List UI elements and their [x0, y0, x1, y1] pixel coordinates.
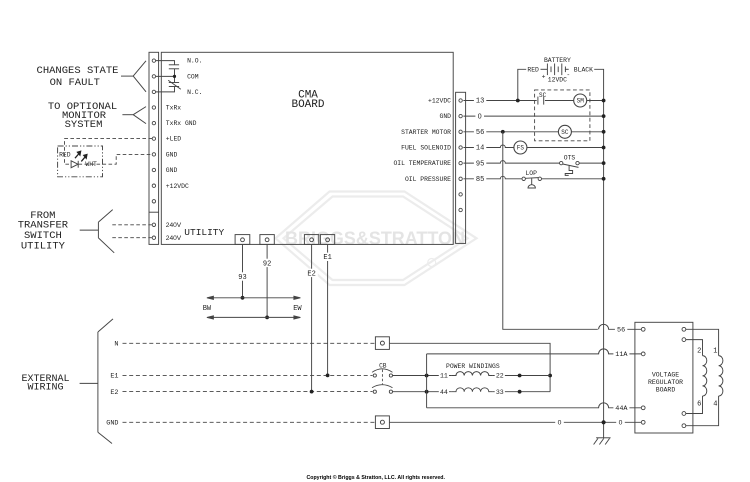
wire coil2 bottom to reg	[686, 396, 703, 414]
switch LOP	[522, 177, 542, 180]
node N at 22	[548, 374, 552, 378]
svg-text:FUEL SOLENOID: FUEL SOLENOID	[401, 145, 451, 152]
node 44 dot	[425, 390, 429, 394]
svg-text:0: 0	[619, 420, 623, 427]
label 56 right	[615, 325, 627, 333]
label E2 drop	[305, 269, 317, 277]
wire 240V dashed a	[112, 224, 152, 226]
svg-text:TxRx GND: TxRx GND	[166, 120, 197, 127]
svg-text:BLACK: BLACK	[574, 67, 593, 74]
node E2 tap	[310, 390, 314, 394]
wire FS to bus	[527, 147, 604, 149]
svg-text:SC: SC	[561, 129, 569, 136]
node bus row0 bottom	[602, 420, 606, 424]
svg-text:FS: FS	[517, 145, 525, 152]
label 11A	[613, 350, 629, 358]
wire 11A with hop	[427, 349, 642, 354]
svg-text:N.O.: N.O.	[187, 58, 202, 65]
wire 56 down-run	[503, 132, 598, 329]
svg-text:44A: 44A	[615, 405, 628, 413]
svg-text:OTS: OTS	[564, 154, 576, 161]
wire coil1 bottom to reg	[686, 396, 719, 426]
svg-text:UTILITY: UTILITY	[184, 227, 224, 238]
coil FS fuel solenoid	[514, 141, 527, 154]
wire row 56	[463, 131, 558, 133]
svg-text:SYSTEM: SYSTEM	[65, 119, 103, 131]
terminal block 92	[260, 235, 274, 245]
svg-text:UTILITY: UTILITY	[21, 240, 66, 252]
wire E2 dashed	[123, 391, 373, 393]
node bus row85	[602, 177, 606, 181]
regulator left terminals	[641, 327, 645, 424]
label 92	[261, 259, 273, 267]
right bus wire	[603, 101, 605, 438]
svg-text:93: 93	[238, 274, 246, 282]
winding 44-33	[452, 388, 493, 392]
node 93 on BW	[241, 296, 245, 300]
svg-text:BATTERY: BATTERY	[544, 57, 571, 64]
label 33	[495, 388, 505, 396]
svg-text:33: 33	[496, 389, 504, 396]
wire LED to GND dashed	[79, 154, 153, 164]
svg-text:STARTER MOTOR: STARTER MOTOR	[401, 129, 451, 136]
svg-text:56: 56	[476, 129, 484, 137]
svg-text:SM: SM	[577, 98, 585, 105]
svg-text:BW: BW	[203, 305, 212, 313]
svg-text:44: 44	[440, 389, 448, 396]
wire CB to 11	[393, 375, 452, 377]
CMA board outline U1	[161, 52, 453, 244]
svg-text:N.C.: N.C.	[187, 89, 202, 96]
svg-text:4: 4	[713, 400, 717, 408]
relay contact symbol (N.O./COM/N.C.)	[156, 61, 181, 92]
svg-text:CHANGES STATE: CHANGES STATE	[37, 65, 119, 77]
wire reg to coil2 top	[686, 340, 703, 356]
label E1 drop	[321, 253, 333, 261]
svg-text:OIL TEMPERATURE: OIL TEMPERATURE	[393, 160, 451, 167]
wire battery red lead	[518, 69, 526, 100]
svg-text:12VDC: 12VDC	[548, 77, 567, 84]
node bus row56	[602, 130, 606, 134]
node 33 dot	[518, 390, 522, 394]
wire +LED dashed	[65, 139, 153, 165]
relay COM junction	[173, 75, 176, 78]
wire E1 drop	[327, 244, 329, 375]
label 22	[495, 372, 505, 380]
svg-text:E2: E2	[110, 389, 118, 397]
node bus row0	[602, 114, 606, 118]
svg-text:E1: E1	[323, 254, 331, 262]
wire 240V dashed b	[112, 237, 152, 239]
brace transfer switch	[80, 210, 115, 253]
BW arrow line	[207, 296, 301, 299]
terminal block E1	[320, 235, 334, 245]
svg-text:+12VDC: +12VDC	[166, 183, 189, 190]
svg-text:0: 0	[558, 420, 562, 427]
svg-text:85: 85	[476, 176, 484, 184]
node bus row14	[602, 146, 606, 150]
node E1 tap	[326, 374, 330, 378]
left strip divider	[149, 211, 159, 213]
contact SC plates	[538, 97, 544, 105]
svg-text:ON FAULT: ON FAULT	[50, 77, 100, 89]
svg-text:GND: GND	[106, 420, 118, 428]
label 85	[474, 175, 486, 183]
svg-text:REGULATOR: REGULATOR	[648, 379, 683, 386]
svg-text:13: 13	[476, 98, 484, 106]
svg-text:1: 1	[713, 347, 717, 355]
svg-text:BOARD: BOARD	[656, 386, 676, 393]
terminal GND block	[375, 416, 389, 429]
wire row 85 with hop	[463, 176, 522, 178]
wire row 0 gnd	[463, 115, 603, 117]
wire E1 dashed	[123, 374, 373, 376]
label 93	[236, 272, 248, 280]
terminal block E2	[304, 235, 318, 245]
wire 0 row	[389, 421, 641, 423]
svg-text:WHT: WHT	[85, 161, 97, 168]
svg-text:WIRING: WIRING	[27, 383, 63, 394]
svg-text:GND: GND	[439, 113, 451, 120]
svg-text:POWER WINDINGS: POWER WINDINGS	[446, 363, 500, 370]
svg-text:+LED: +LED	[166, 136, 182, 143]
svg-text:OIL PRESSURE: OIL PRESSURE	[405, 176, 451, 183]
ground symbol	[594, 438, 611, 445]
wire GND dashed	[123, 421, 376, 423]
brace external wiring	[80, 319, 113, 444]
wire 93 drop	[242, 244, 244, 297]
right pin labels	[393, 98, 451, 183]
node bus row13	[602, 99, 606, 103]
wire OTS to bus	[579, 162, 603, 164]
wire SM to bus	[587, 100, 604, 102]
left pin labels	[166, 58, 203, 242]
node 11 dot	[425, 374, 429, 378]
coil 2	[703, 356, 707, 396]
right terminals	[459, 99, 462, 212]
label 11	[439, 372, 449, 380]
wire E2 drop	[311, 244, 313, 391]
LED arrows	[75, 151, 87, 161]
svg-text:SC: SC	[539, 92, 547, 99]
wire 33 to N riser	[493, 391, 550, 393]
svg-text:240V: 240V	[166, 235, 182, 242]
switch OTS	[560, 161, 580, 164]
wire LOP to bus	[542, 178, 604, 180]
label 0 left	[555, 418, 564, 426]
node bus row95	[602, 161, 606, 165]
left terminal strip	[149, 52, 159, 244]
brace changes-state	[121, 61, 146, 92]
svg-text:TxRx: TxRx	[166, 105, 182, 112]
svg-text:11A: 11A	[615, 351, 628, 359]
wire row 13	[463, 100, 536, 102]
label 0	[475, 112, 484, 120]
svg-text:E1: E1	[110, 373, 118, 381]
svg-text:14: 14	[476, 145, 484, 153]
wire 22 to N node	[493, 375, 550, 377]
wire row 95 with hop	[463, 161, 559, 164]
coil 1	[719, 356, 723, 396]
wire CB to 44	[393, 391, 452, 393]
wire N to windings	[389, 343, 550, 391]
svg-text:0: 0	[478, 113, 482, 120]
label 56	[474, 128, 486, 136]
label 95	[474, 159, 486, 167]
wire N dashed	[123, 342, 376, 344]
svg-text:92: 92	[263, 260, 271, 268]
svg-text:+12VDC: +12VDC	[428, 98, 451, 105]
svg-text:-: -	[566, 72, 570, 79]
svg-text:22: 22	[496, 373, 504, 380]
brace monitor system	[122, 107, 146, 124]
svg-text:BOARD: BOARD	[291, 99, 324, 111]
svg-text:11: 11	[440, 373, 448, 380]
label 44	[439, 388, 449, 396]
svg-text:240V: 240V	[166, 222, 182, 229]
wire 92 drop	[266, 244, 268, 317]
wire 56 hop over bus	[599, 324, 642, 329]
label 13	[474, 97, 486, 105]
wire 44A with hop	[427, 403, 642, 408]
wire row 14 with hop	[463, 145, 514, 148]
node 92 on EW	[265, 316, 269, 320]
svg-text:E2: E2	[307, 270, 315, 278]
voltage regulator board U2	[635, 322, 693, 433]
label 0 right	[616, 418, 625, 426]
svg-text:6: 6	[697, 400, 701, 408]
label 44A	[613, 404, 629, 412]
svg-text:GND: GND	[166, 152, 178, 159]
wire SC to SM	[545, 100, 574, 102]
svg-text:95: 95	[476, 160, 484, 168]
label 14	[474, 144, 486, 152]
right terminal strip	[456, 92, 466, 243]
svg-text:2: 2	[697, 347, 701, 355]
wire SC coil to bus	[571, 131, 603, 133]
svg-text:CB: CB	[379, 362, 387, 369]
LED diode D1	[71, 161, 78, 168]
EW arrow line	[207, 316, 301, 319]
wire reg to coil1 top	[686, 329, 719, 355]
winding 11-22	[452, 372, 493, 376]
node row56 tap	[501, 130, 505, 134]
svg-text:COM: COM	[187, 74, 199, 81]
svg-text:56: 56	[617, 327, 625, 335]
left terminals	[152, 59, 155, 240]
svg-text:EW: EW	[293, 305, 302, 313]
battery B1	[541, 64, 569, 76]
svg-text:GND: GND	[166, 167, 178, 174]
svg-text:+: +	[542, 73, 546, 80]
terminal block 93	[235, 235, 250, 245]
regulator right terminals	[682, 327, 686, 427]
svg-text:RED: RED	[527, 67, 539, 74]
wire battery black lead	[594, 69, 603, 100]
terminal N block	[375, 337, 389, 350]
node battery red junction	[516, 99, 520, 103]
LED indicator box	[58, 146, 103, 177]
node 22 dot	[518, 374, 522, 378]
svg-text:Copyright © Briggs & Stratton,: Copyright © Briggs & Stratton, LLC. All …	[306, 474, 445, 481]
starter motor SM	[574, 94, 587, 107]
svg-text:LOP: LOP	[525, 170, 537, 177]
wire 11A riser	[426, 354, 428, 408]
dashed relay box	[535, 90, 590, 141]
svg-text:N: N	[114, 341, 118, 349]
svg-text:VOLTAGE: VOLTAGE	[652, 371, 679, 378]
coil SC	[558, 125, 571, 138]
circuit breaker CB	[373, 374, 392, 393]
watermark logo	[276, 192, 477, 286]
